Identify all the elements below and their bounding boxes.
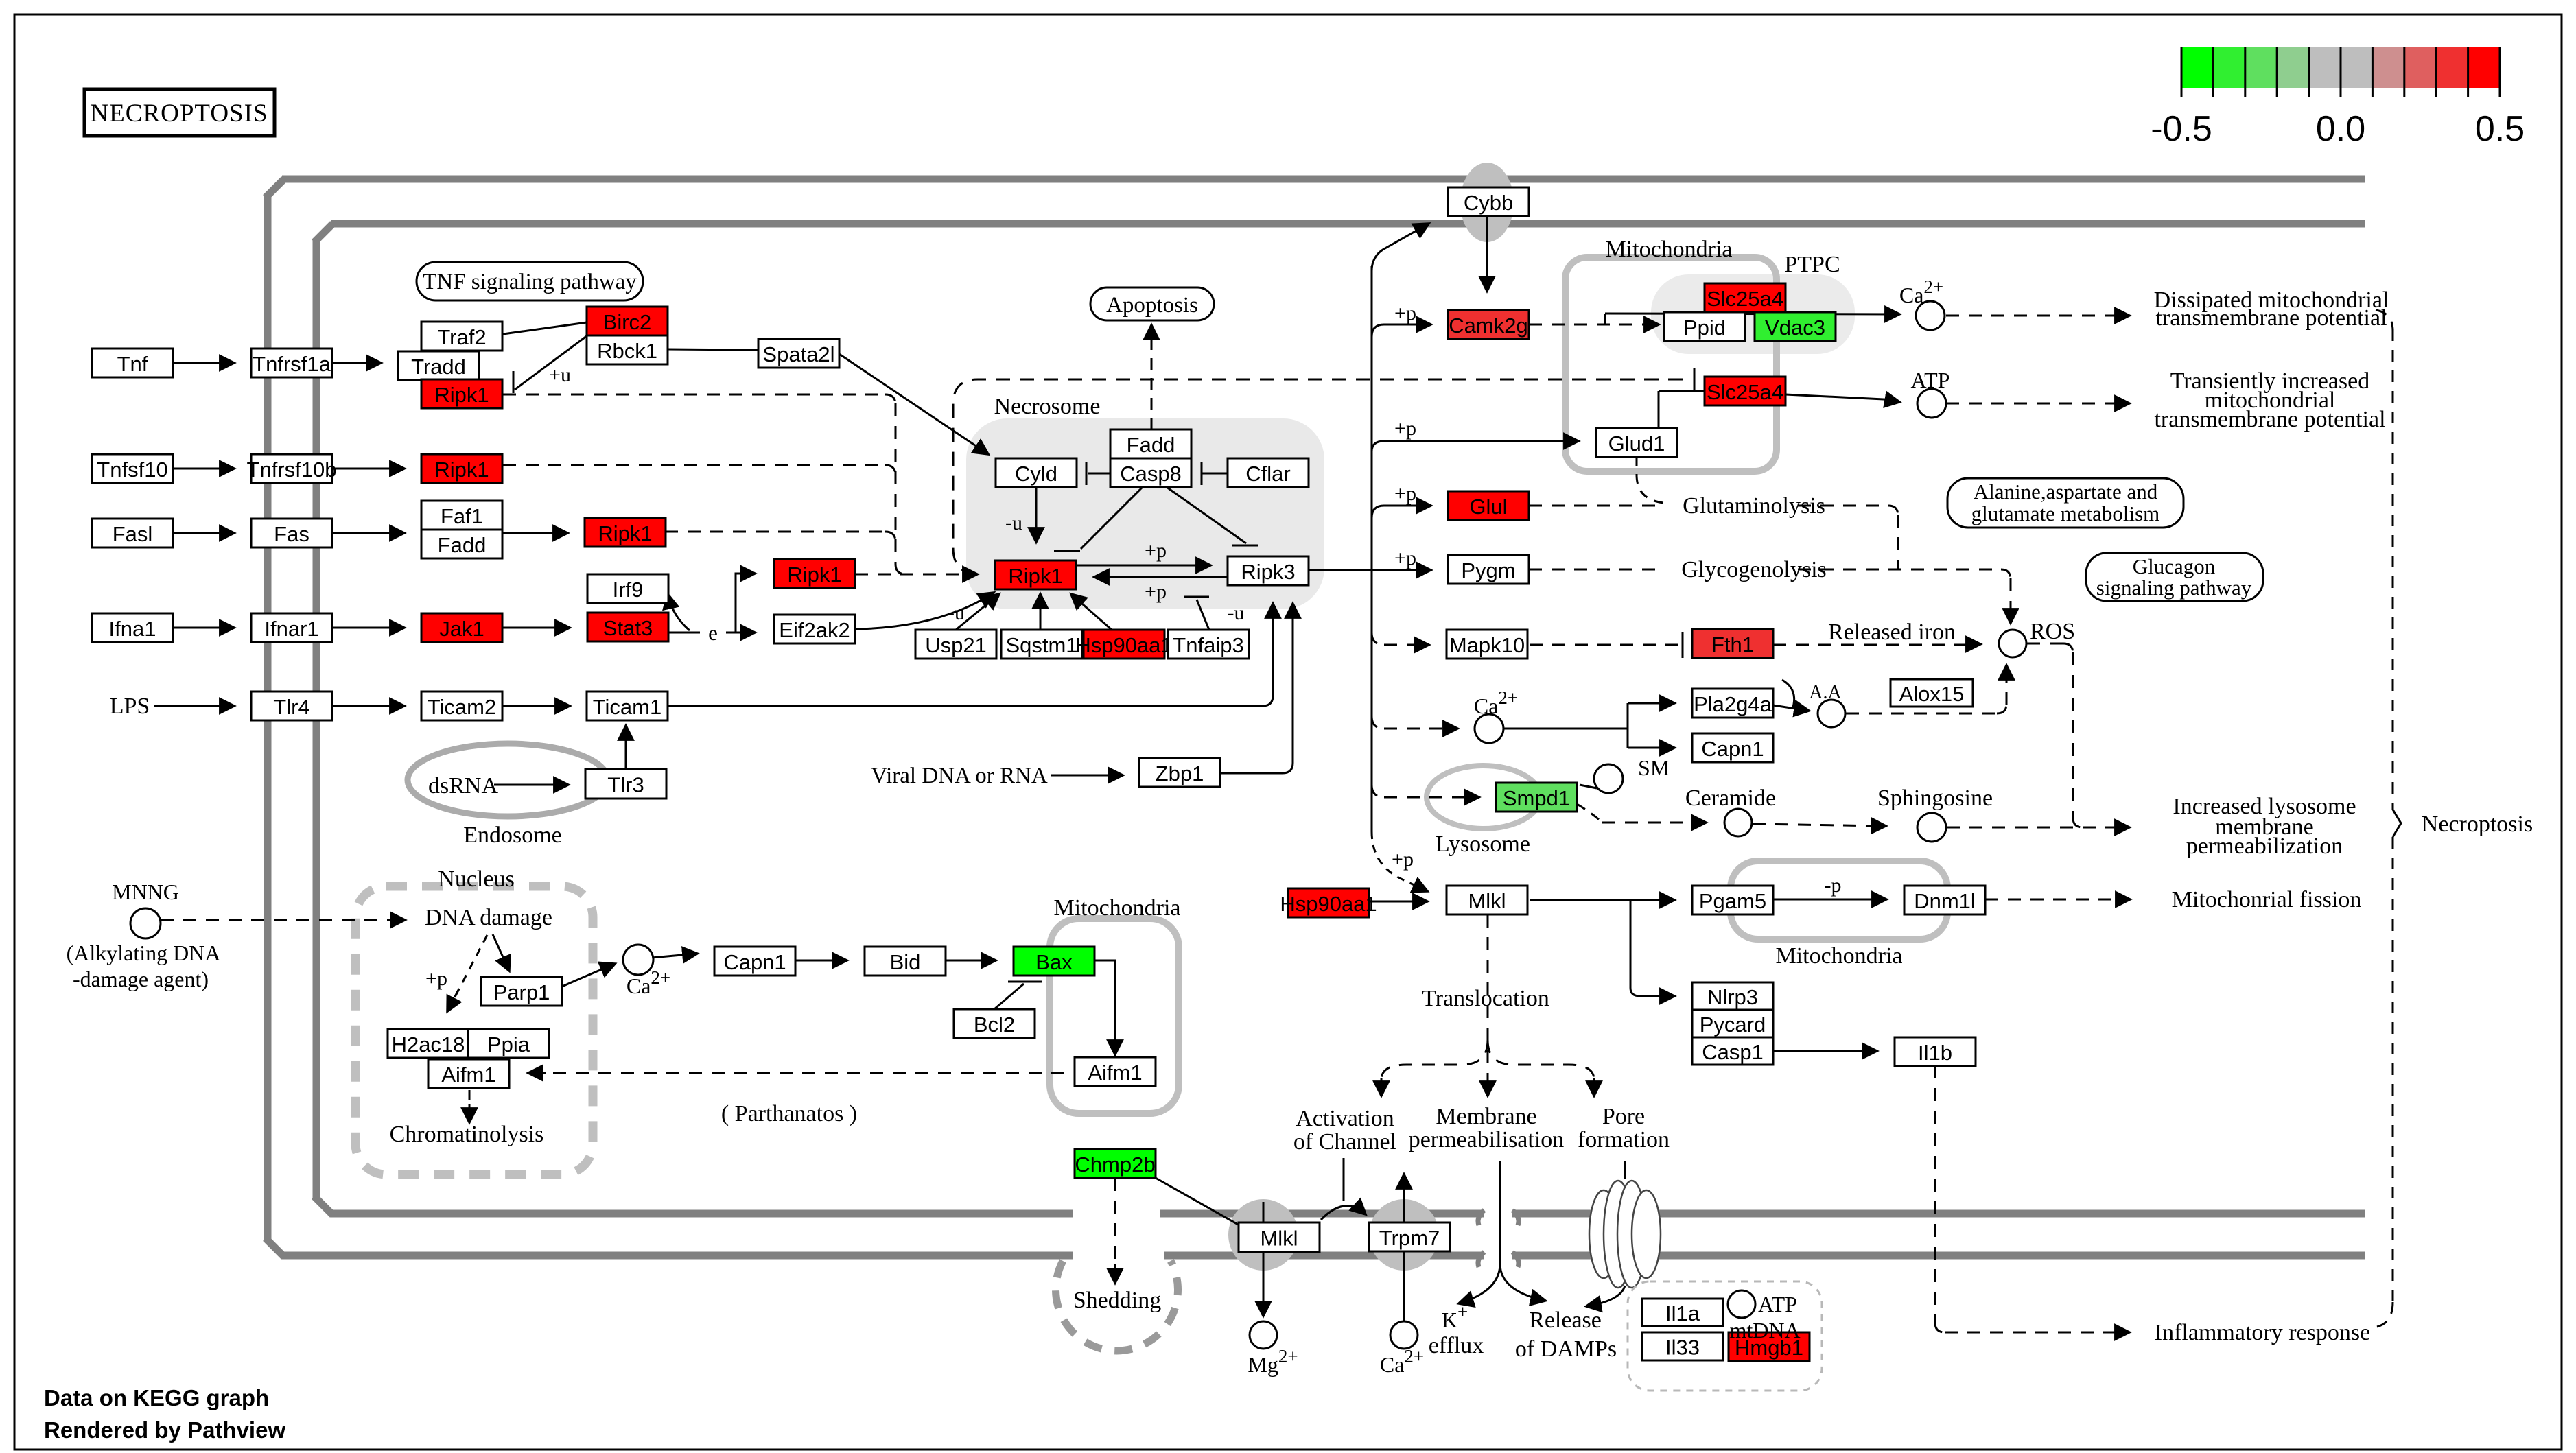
svg-text:Smpd1: Smpd1 — [1503, 786, 1570, 810]
svg-text:+p: +p — [1392, 848, 1414, 871]
svg-text:Il33: Il33 — [1665, 1336, 1700, 1360]
svg-text:Chmp2b: Chmp2b — [1075, 1153, 1155, 1177]
svg-text:+u: +u — [549, 364, 571, 386]
svg-text:Ticam2: Ticam2 — [428, 695, 496, 719]
svg-text:Glycogenolysis: Glycogenolysis — [1681, 557, 1827, 582]
svg-text:Irf9: Irf9 — [613, 578, 644, 602]
svg-text:Pygm: Pygm — [1461, 558, 1515, 582]
svg-text:Fadd: Fadd — [438, 533, 487, 557]
svg-text:Aifm1: Aifm1 — [441, 1063, 495, 1087]
svg-text:dsRNA: dsRNA — [428, 773, 498, 799]
svg-text:Translocation: Translocation — [1422, 986, 1549, 1011]
svg-text:+p: +p — [425, 967, 447, 990]
svg-text:Pla2g4a: Pla2g4a — [1694, 692, 1772, 716]
svg-text:DNA damage: DNA damage — [425, 905, 552, 930]
svg-text:SM: SM — [1638, 755, 1670, 780]
svg-text:Sqstm1: Sqstm1 — [1005, 633, 1077, 657]
svg-text:Tradd: Tradd — [411, 355, 466, 379]
svg-text:Eif2ak2: Eif2ak2 — [779, 618, 850, 642]
svg-text:Necroptosis: Necroptosis — [2422, 812, 2533, 837]
svg-text:Ripk1: Ripk1 — [598, 521, 652, 545]
svg-text:LPS: LPS — [110, 694, 150, 719]
svg-text:Glul: Glul — [1469, 495, 1507, 519]
svg-text:+p: +p — [1394, 302, 1416, 324]
svg-text:Fth1: Fth1 — [1711, 633, 1754, 657]
svg-text:Activation: Activation — [1296, 1106, 1394, 1131]
svg-text:Hsp90aa1: Hsp90aa1 — [1280, 892, 1377, 916]
svg-text:Ppia: Ppia — [487, 1032, 530, 1056]
svg-text:Inflammatory response: Inflammatory response — [2155, 1320, 2370, 1345]
svg-text:NECROPTOSIS: NECROPTOSIS — [90, 99, 268, 128]
svg-text:Ripk1: Ripk1 — [1008, 564, 1062, 588]
svg-text:of Channel: of Channel — [1293, 1129, 1396, 1155]
svg-text:Tnfsf10: Tnfsf10 — [97, 458, 167, 482]
svg-text:efflux: efflux — [1429, 1333, 1484, 1358]
svg-text:Ripk1: Ripk1 — [434, 458, 489, 482]
svg-text:TNF signaling pathway: TNF signaling pathway — [423, 270, 637, 294]
svg-text:Release: Release — [1529, 1308, 1602, 1333]
svg-text:0.5: 0.5 — [2475, 109, 2525, 149]
svg-text:Ripk1: Ripk1 — [434, 383, 489, 407]
svg-text:Fadd: Fadd — [1127, 433, 1175, 457]
svg-text:Bcl2: Bcl2 — [974, 1013, 1015, 1037]
svg-text:MNNG: MNNG — [112, 879, 179, 904]
svg-text:Tnf: Tnf — [117, 352, 148, 376]
svg-text:Trpm7: Trpm7 — [1379, 1226, 1440, 1250]
svg-text:Fas: Fas — [274, 522, 309, 546]
svg-text:Parp1: Parp1 — [493, 980, 550, 1004]
svg-text:Tnfrsf1a: Tnfrsf1a — [253, 352, 331, 376]
svg-text:Alanine,aspartate and: Alanine,aspartate and — [1974, 480, 2158, 504]
svg-text:Tlr4: Tlr4 — [273, 695, 309, 719]
svg-text:Data on KEGG graph: Data on KEGG graph — [44, 1385, 269, 1410]
svg-text:Rendered by Pathview: Rendered by Pathview — [44, 1417, 285, 1443]
svg-text:Il1b: Il1b — [1918, 1041, 1952, 1065]
svg-text:Mitochondria: Mitochondria — [1605, 237, 1732, 262]
svg-text:Cflar: Cflar — [1245, 462, 1290, 486]
svg-text:permeabilization: permeabilization — [2186, 834, 2343, 859]
svg-text:Mitochondria: Mitochondria — [1053, 895, 1180, 921]
svg-text:Pycard: Pycard — [1700, 1013, 1766, 1037]
svg-text:Il1a: Il1a — [1665, 1301, 1700, 1325]
svg-text:Viral DNA or RNA: Viral DNA or RNA — [871, 764, 1048, 788]
svg-text:Nlrp3: Nlrp3 — [1707, 985, 1758, 1009]
svg-text:Mlkl: Mlkl — [1260, 1227, 1298, 1251]
svg-text:Mlkl: Mlkl — [1468, 889, 1506, 913]
svg-text:Bax: Bax — [1035, 950, 1073, 974]
svg-text:Released iron: Released iron — [1828, 619, 1956, 645]
svg-text:Casp8: Casp8 — [1120, 462, 1182, 486]
svg-text:Fasl: Fasl — [113, 522, 153, 546]
svg-text:Shedding: Shedding — [1073, 1288, 1161, 1313]
svg-text:Tlr3: Tlr3 — [607, 773, 644, 797]
svg-text:Nucleus: Nucleus — [438, 866, 514, 892]
svg-text:transmembrane potential: transmembrane potential — [2154, 407, 2385, 432]
svg-text:Glutaminolysis: Glutaminolysis — [1683, 493, 1825, 519]
svg-text:Tnfaip3: Tnfaip3 — [1173, 633, 1243, 657]
svg-text:+p: +p — [1145, 539, 1167, 562]
svg-text:Camk2g: Camk2g — [1449, 314, 1527, 338]
svg-text:Endosome: Endosome — [463, 823, 562, 848]
svg-text:Ripk1: Ripk1 — [787, 563, 841, 587]
svg-text:Traf2: Traf2 — [437, 325, 486, 349]
svg-text:Capn1: Capn1 — [723, 950, 786, 974]
svg-text:( Parthanatos ): ( Parthanatos ) — [721, 1101, 857, 1126]
svg-text:-0.5: -0.5 — [2151, 109, 2212, 149]
svg-text:Ifna1: Ifna1 — [109, 617, 156, 641]
svg-text:Vdac3: Vdac3 — [1765, 316, 1825, 340]
svg-text:Ppid: Ppid — [1683, 316, 1726, 340]
svg-text:glutamate metabolism: glutamate metabolism — [1971, 501, 2160, 525]
svg-text:+p: +p — [1394, 417, 1416, 440]
svg-text:Pgam5: Pgam5 — [1699, 889, 1766, 913]
svg-text:Faf1: Faf1 — [441, 504, 483, 528]
svg-text:of DAMPs: of DAMPs — [1515, 1336, 1617, 1362]
svg-text:Cybb: Cybb — [1464, 191, 1513, 215]
svg-text:Rbck1: Rbck1 — [597, 339, 657, 363]
svg-text:mtDNA: mtDNA — [1729, 1318, 1800, 1343]
svg-text:Casp1: Casp1 — [1702, 1040, 1764, 1064]
svg-text:Dnm1l: Dnm1l — [1914, 889, 1976, 913]
svg-text:Necrosome: Necrosome — [994, 394, 1101, 419]
svg-text:Ifnar1: Ifnar1 — [264, 617, 318, 641]
svg-text:Lysosome: Lysosome — [1436, 831, 1530, 857]
svg-text:Glucagon: Glucagon — [2133, 554, 2216, 578]
svg-text:formation: formation — [1578, 1127, 1670, 1153]
svg-text:Apoptosis: Apoptosis — [1106, 293, 1198, 318]
svg-text:Stat3: Stat3 — [603, 616, 653, 640]
svg-text:Jak1: Jak1 — [439, 617, 484, 641]
svg-text:transmembrane potential: transmembrane potential — [2155, 305, 2387, 331]
svg-text:permeabilisation: permeabilisation — [1409, 1127, 1565, 1153]
svg-text:Aifm1: Aifm1 — [1088, 1061, 1142, 1085]
svg-text:Slc25a4: Slc25a4 — [1707, 287, 1783, 311]
svg-text:Usp21: Usp21 — [925, 633, 987, 657]
svg-text:+p: +p — [1394, 547, 1416, 569]
svg-text:Ceramide: Ceramide — [1685, 785, 1776, 811]
svg-text:-damage agent): -damage agent) — [73, 967, 209, 991]
svg-text:Mitochondria: Mitochondria — [1775, 943, 1902, 969]
svg-text:PTPC: PTPC — [1784, 252, 1840, 277]
svg-text:Tnfrsf10b: Tnfrsf10b — [247, 458, 337, 482]
svg-text:Mitochonrial fission: Mitochonrial fission — [2172, 887, 2362, 912]
svg-text:Membrane: Membrane — [1436, 1104, 1536, 1129]
svg-text:ATP: ATP — [1758, 1292, 1797, 1316]
svg-text:0.0: 0.0 — [2316, 109, 2365, 149]
svg-text:Ripk3: Ripk3 — [1241, 560, 1295, 584]
svg-text:Zbp1: Zbp1 — [1156, 761, 1204, 785]
svg-text:-u: -u — [1005, 512, 1022, 534]
svg-text:Glud1: Glud1 — [1608, 432, 1665, 456]
svg-text:H2ac18: H2ac18 — [392, 1032, 465, 1056]
svg-text:signaling pathway: signaling pathway — [2096, 576, 2252, 600]
svg-text:-p: -p — [1825, 874, 1842, 897]
svg-text:Capn1: Capn1 — [1701, 737, 1764, 761]
svg-text:Hsp90aa1: Hsp90aa1 — [1075, 633, 1172, 657]
svg-text:Alox15: Alox15 — [1899, 682, 1965, 706]
svg-text:(Alkylating DNA: (Alkylating DNA — [67, 941, 221, 965]
svg-text:Bid: Bid — [890, 950, 921, 974]
svg-text:Spata2l: Spata2l — [762, 342, 834, 366]
svg-text:Pore: Pore — [1602, 1104, 1645, 1129]
svg-text:+p: +p — [1394, 482, 1416, 505]
svg-text:Slc25a4: Slc25a4 — [1707, 380, 1783, 404]
svg-text:Chromatinolysis: Chromatinolysis — [390, 1122, 544, 1147]
svg-text:Cyld: Cyld — [1015, 462, 1057, 486]
svg-text:ATP: ATP — [1911, 368, 1950, 392]
svg-text:+p: +p — [1145, 580, 1167, 603]
svg-text:Birc2: Birc2 — [603, 310, 652, 334]
svg-text:e: e — [708, 621, 718, 645]
svg-text:ROS: ROS — [2030, 619, 2075, 644]
svg-text:Mapk10: Mapk10 — [1449, 633, 1525, 657]
svg-text:-u: -u — [1228, 602, 1245, 624]
svg-text:Sphingosine: Sphingosine — [1877, 785, 1993, 811]
svg-text:A.A: A.A — [1809, 682, 1842, 703]
svg-text:Ticam1: Ticam1 — [593, 695, 661, 719]
